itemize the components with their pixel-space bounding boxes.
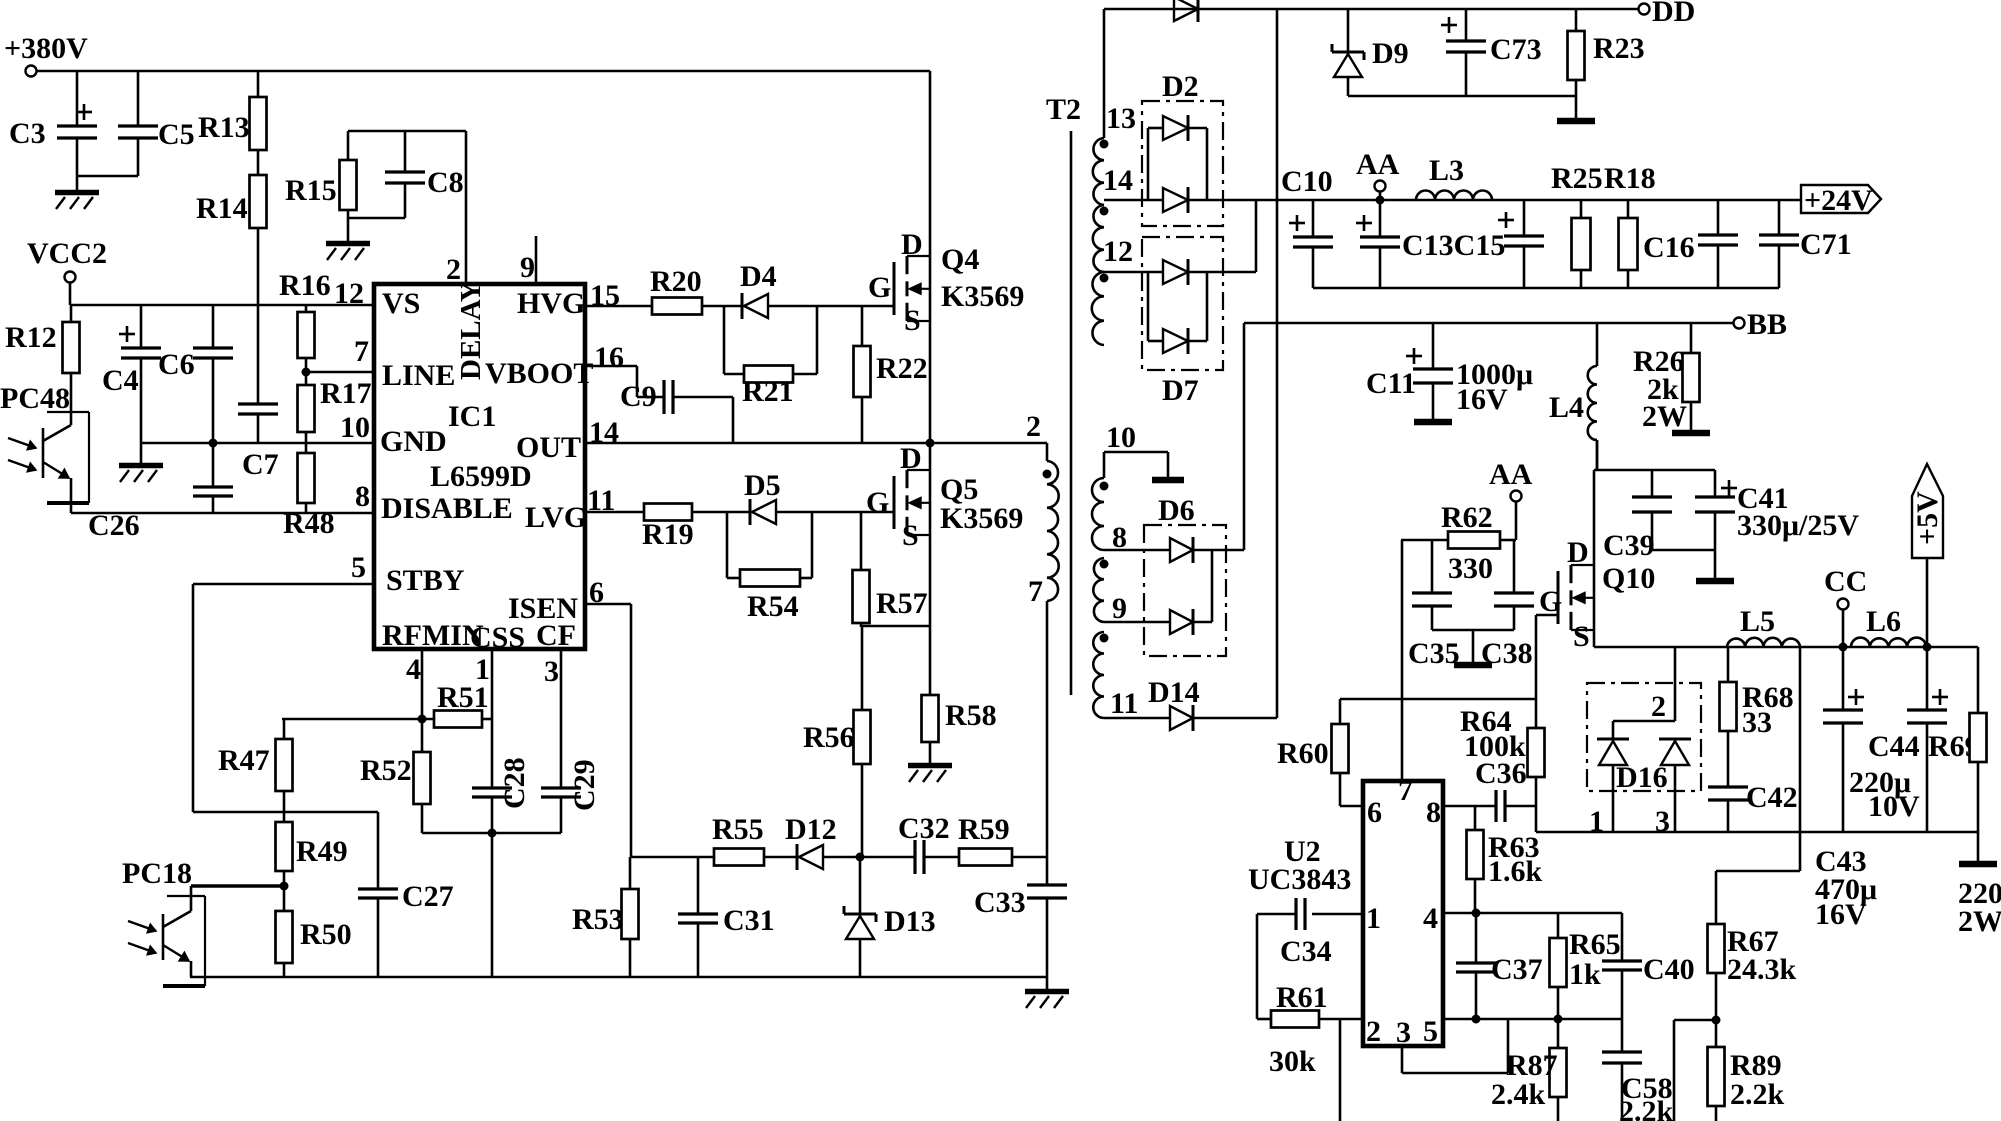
svg-text:C16: C16 — [1643, 231, 1695, 264]
svg-text:LINE: LINE — [382, 359, 455, 392]
capacitor C8 — [348, 131, 464, 218]
svg-text:C37: C37 — [1491, 953, 1543, 986]
svg-text:VS: VS — [382, 287, 420, 320]
svg-text:R50: R50 — [300, 918, 352, 951]
svg-text:T2: T2 — [1046, 93, 1081, 126]
diode D16 dual — [1587, 647, 1701, 838]
capacitor C11 — [1366, 323, 1533, 419]
resistor R12 — [5, 305, 80, 373]
wire C39 C41 top — [1594, 469, 1715, 472]
resistor R48 — [283, 443, 335, 540]
wire pin3 net — [1402, 1019, 1508, 1073]
capacitor C16 — [1643, 200, 1738, 288]
svg-text:R17: R17 — [320, 377, 372, 410]
wire +380V rail — [36, 70, 930, 73]
svg-text:5: 5 — [351, 551, 366, 584]
wire filter bottom bus — [1313, 287, 1779, 290]
resistor R17 — [298, 372, 372, 443]
wire LINE pin7 — [302, 368, 375, 377]
svg-text:R13: R13 — [198, 111, 250, 144]
capacitor C3 — [9, 71, 97, 176]
svg-text:3: 3 — [544, 655, 559, 688]
wire pin10 stub — [1104, 452, 1184, 480]
op-amp U2 UC3843 box — [1363, 781, 1443, 1046]
svg-text:VBOOT: VBOOT — [485, 357, 593, 390]
wire pin9 into D6 — [1104, 621, 1170, 624]
svg-text:10: 10 — [340, 411, 370, 444]
resistor R69 — [1958, 647, 2001, 938]
svg-text:C39: C39 — [1603, 529, 1655, 562]
transformer T2 secondary lower — [1092, 421, 1138, 720]
wire DISABLE pin8 — [71, 512, 374, 515]
resistor R26 — [1633, 323, 1700, 433]
diode D9 zener — [1332, 9, 1409, 96]
wire C39 C41 bottom — [1652, 550, 1715, 578]
svg-text:L6599D: L6599D — [430, 460, 532, 493]
wire Q10 gate chain — [1535, 615, 1538, 728]
diode D5 — [744, 469, 894, 525]
resistor R67 — [1708, 924, 1797, 1025]
wire VCC2 rail — [70, 283, 374, 305]
optocoupler PC48 — [0, 373, 89, 513]
svg-text:C29: C29 — [568, 759, 601, 811]
capacitor C36 — [1443, 757, 1536, 822]
inductor L3 — [1416, 154, 1492, 200]
svg-text:7: 7 — [354, 335, 369, 368]
resistor R89 — [1708, 1020, 1785, 1121]
ground under C3 — [55, 193, 99, 210]
svg-text:D6: D6 — [1158, 494, 1195, 527]
resistor R18 — [1604, 162, 1656, 288]
svg-text:UC3843: UC3843 — [1248, 863, 1351, 896]
resistor R58 — [922, 626, 997, 763]
svg-text:16: 16 — [594, 341, 624, 374]
wire DD rail — [1104, 8, 1638, 11]
resistor R68 — [1720, 647, 1794, 787]
wire pin2 down — [1339, 1019, 1342, 1121]
svg-text:5: 5 — [1423, 1015, 1438, 1048]
svg-text:R52: R52 — [360, 754, 412, 787]
transistor Q4 K3569 — [868, 71, 1024, 443]
resistor R19 — [585, 504, 750, 552]
node +24V output flag — [1801, 184, 1881, 217]
svg-text:R62: R62 — [1441, 501, 1493, 534]
IC1 pin numbers — [334, 251, 624, 688]
svg-text:3: 3 — [1396, 1016, 1411, 1049]
wire Q10 gate — [1536, 614, 1558, 617]
svg-text:D: D — [900, 442, 922, 475]
wire GND pin10 — [141, 439, 374, 448]
svg-text:AA: AA — [1356, 148, 1400, 181]
capacitor C34 — [1257, 898, 1363, 1019]
capacitor C58 — [1602, 1019, 1674, 1121]
wire pin5 net — [1443, 1015, 1622, 1024]
capacitor C37 — [1456, 913, 1543, 1019]
IC1 pin names — [380, 281, 593, 654]
wire C35 C38 bottom — [1432, 630, 1514, 662]
svg-text:R56: R56 — [803, 721, 855, 754]
svg-text:16V: 16V — [1815, 898, 1867, 931]
svg-text:C6: C6 — [158, 348, 195, 381]
svg-text:1k: 1k — [1569, 958, 1601, 991]
capacitor C31 — [678, 857, 775, 977]
capacitor C39 — [1603, 470, 1672, 562]
ground under R15 — [326, 244, 370, 261]
ground under C11 — [1414, 419, 1452, 426]
wire STBY pin5 — [193, 584, 378, 812]
svg-text:Q10: Q10 — [1602, 562, 1655, 595]
svg-text:6: 6 — [1367, 796, 1382, 829]
resistor R56 — [803, 626, 871, 857]
wire pin7 net — [1401, 540, 1404, 781]
transformer T2 primary winding — [1026, 410, 1059, 608]
wire C3-C5 join — [77, 176, 138, 190]
optocoupler PC18 — [122, 857, 284, 986]
svg-text:IC1: IC1 — [448, 400, 496, 433]
svg-text:Q4: Q4 — [941, 243, 979, 276]
svg-text:AA: AA — [1489, 458, 1533, 491]
svg-text:C13C15: C13C15 — [1402, 229, 1505, 262]
diode D6 dual — [1144, 494, 1244, 656]
transistor Q5 K3569 — [866, 442, 1023, 626]
diode D13 zener — [844, 857, 936, 977]
svg-text:CC: CC — [1824, 565, 1867, 598]
svg-text:C35: C35 — [1408, 637, 1460, 670]
svg-text:4: 4 — [1423, 902, 1438, 935]
diode D14 — [1104, 676, 1277, 731]
transistor Q10 — [1539, 470, 1655, 653]
capacitor C28 — [472, 757, 531, 833]
svg-text:R48: R48 — [283, 507, 335, 540]
resistor R22 — [854, 306, 928, 443]
node +380V terminal — [4, 32, 88, 77]
svg-text:330μ/25V: 330μ/25V — [1737, 509, 1859, 542]
ground under C35 C38 — [1454, 662, 1492, 669]
svg-text:+24V: +24V — [1804, 184, 1873, 217]
resistor R61 — [1257, 981, 1363, 1078]
svg-text:CSS: CSS — [470, 621, 525, 654]
node AA on rail — [1356, 148, 1400, 205]
svg-text:R18: R18 — [1604, 162, 1656, 195]
capacitor C33 — [974, 885, 1067, 977]
inductor L5 — [1727, 605, 1800, 647]
resistor R52 — [360, 719, 431, 833]
svg-text:R15: R15 — [285, 174, 337, 207]
capacitor C42 — [1708, 781, 1798, 832]
svg-text:C36: C36 — [1475, 757, 1527, 790]
svg-text:2: 2 — [1026, 410, 1041, 443]
svg-text:30k: 30k — [1269, 1045, 1316, 1078]
node BB terminal — [1734, 308, 1788, 341]
svg-text:D: D — [1567, 536, 1589, 569]
svg-text:8: 8 — [1426, 796, 1441, 829]
svg-text:+5V: +5V — [1911, 491, 1944, 545]
svg-text:R54: R54 — [747, 590, 799, 623]
inductor L4 — [1549, 323, 1597, 470]
svg-text:L5: L5 — [1740, 605, 1775, 638]
svg-text:7: 7 — [1028, 575, 1043, 608]
inductor L6 — [1851, 605, 1926, 647]
ground under R26 — [1672, 430, 1710, 437]
svg-text:C9: C9 — [620, 380, 657, 413]
svg-text:2W: 2W — [1958, 905, 2001, 938]
capacitor C10 — [1281, 165, 1333, 288]
wire L4 to Q10 drain — [1596, 440, 1599, 470]
svg-text:8: 8 — [355, 480, 370, 513]
wire pin12 through D7 to rail — [1104, 200, 1256, 272]
capacitor C4 — [102, 305, 161, 463]
svg-text:C4: C4 — [102, 364, 139, 397]
wire OUT pin14 — [585, 439, 1047, 462]
wire pin4 node — [282, 649, 434, 724]
resistor R53 — [572, 857, 639, 977]
capacitor C35 — [1408, 540, 1460, 670]
svg-text:+380V: +380V — [4, 32, 88, 65]
svg-text:4: 4 — [406, 653, 421, 686]
svg-text:C34: C34 — [1280, 935, 1332, 968]
svg-text:STBY: STBY — [386, 564, 465, 597]
svg-text:G: G — [1539, 585, 1562, 618]
capacitor C29 — [541, 759, 601, 833]
resistor R54 — [727, 512, 812, 623]
svg-text:C5: C5 — [158, 118, 195, 151]
svg-text:R51: R51 — [437, 681, 489, 714]
svg-text:C32: C32 — [898, 812, 950, 845]
resistor R57 — [853, 512, 928, 627]
svg-text:D2: D2 — [1162, 70, 1199, 103]
capacitor C32 — [860, 812, 959, 874]
transformer T2 core — [1070, 131, 1073, 695]
svg-text:L4: L4 — [1549, 391, 1584, 424]
svg-text:S: S — [904, 304, 921, 337]
svg-text:S: S — [1573, 620, 1590, 653]
svg-text:R14: R14 — [196, 192, 248, 225]
capacitor C40 — [1602, 913, 1695, 1019]
svg-text:RFMIN: RFMIN — [382, 619, 484, 652]
node D13 junction — [856, 853, 865, 862]
ground under C41 — [1696, 578, 1734, 585]
svg-text:BB: BB — [1747, 308, 1787, 341]
resistor R64 — [1460, 705, 1545, 832]
svg-text:10: 10 — [1106, 421, 1136, 454]
svg-text:R12: R12 — [5, 321, 57, 354]
svg-text:2: 2 — [1651, 690, 1666, 723]
svg-text:C26: C26 — [88, 509, 140, 542]
svg-text:VCC2: VCC2 — [27, 237, 107, 270]
svg-text:LVG: LVG — [525, 501, 587, 534]
node L6 right junction — [1923, 643, 1932, 652]
svg-text:G: G — [868, 271, 891, 304]
svg-text:C10: C10 — [1281, 165, 1333, 198]
wire BB rail — [1244, 322, 1733, 325]
diode D2 dual — [1142, 70, 1223, 226]
svg-text:DD: DD — [1652, 0, 1695, 28]
svg-text:D14: D14 — [1148, 676, 1200, 709]
wire R67 feedback tap — [1716, 647, 1800, 924]
svg-text:C7: C7 — [242, 448, 279, 481]
svg-text:R65: R65 — [1569, 928, 1621, 961]
svg-text:1.6k: 1.6k — [1488, 855, 1543, 888]
wire pin9 stub — [535, 236, 538, 284]
svg-text:330: 330 — [1448, 552, 1493, 585]
svg-text:R47: R47 — [218, 744, 270, 777]
svg-text:D12: D12 — [785, 813, 837, 846]
resistor R55 — [631, 813, 797, 866]
diode D12 — [785, 813, 860, 870]
svg-text:R49: R49 — [296, 835, 348, 868]
resistor R51 — [434, 681, 492, 728]
svg-text:R60: R60 — [1277, 737, 1329, 770]
wire D6 output to BB — [1243, 323, 1246, 550]
svg-text:GND: GND — [380, 425, 447, 458]
resistor R65 — [1550, 913, 1621, 1019]
svg-text:R23: R23 — [1593, 32, 1645, 65]
node DD terminal — [1639, 0, 1696, 28]
svg-text:R22: R22 — [876, 352, 928, 385]
wire primary return — [1046, 601, 1049, 885]
resistor R60 — [1277, 699, 1363, 806]
svg-text:2: 2 — [446, 253, 461, 286]
resistor R14 — [196, 150, 267, 404]
svg-text:10V: 10V — [1868, 790, 1920, 823]
svg-text:C11: C11 — [1366, 367, 1416, 400]
svg-text:14: 14 — [1103, 164, 1133, 197]
capacitor C5 — [118, 71, 195, 176]
svg-text:2W: 2W — [1642, 400, 1687, 433]
svg-text:R59: R59 — [958, 813, 1010, 846]
svg-text:R19: R19 — [642, 518, 694, 551]
wire +5V bus from Q10 source — [1594, 646, 1978, 649]
diode D4 — [740, 260, 894, 319]
capacitor C15 — [1402, 200, 1544, 288]
capacitor C6 — [158, 305, 233, 443]
op-amp IC1 L6599D box — [374, 284, 585, 649]
svg-text:12: 12 — [1103, 235, 1133, 268]
svg-text:R61: R61 — [1276, 981, 1328, 1014]
svg-text:D9: D9 — [1372, 37, 1409, 70]
capacitor C38 — [1481, 540, 1534, 670]
svg-text:K3569: K3569 — [941, 280, 1024, 313]
resistor R59 — [958, 813, 1047, 866]
wire feedback node down — [1674, 1020, 1716, 1121]
U2 pin numbers — [1366, 774, 1441, 1049]
svg-text:11: 11 — [1110, 687, 1138, 720]
wire Q5 source to R56 — [861, 625, 930, 628]
resistor R62 — [1401, 501, 1516, 585]
svg-text:PC48: PC48 — [0, 382, 70, 415]
capacitor C9 — [585, 366, 733, 443]
node AA terminal right — [1489, 458, 1533, 540]
svg-text:DELAY: DELAY — [455, 281, 487, 380]
svg-text:K3569: K3569 — [940, 502, 1023, 535]
svg-text:L6: L6 — [1866, 605, 1901, 638]
wire pin8 into D6 — [1104, 549, 1170, 552]
capacitor C7 — [238, 404, 279, 481]
svg-text:R55: R55 — [712, 813, 764, 846]
svg-text:R21: R21 — [742, 375, 794, 408]
wire pin1 CSS — [491, 649, 494, 788]
svg-text:C42: C42 — [1746, 781, 1798, 814]
svg-text:R53: R53 — [572, 903, 624, 936]
svg-text:D5: D5 — [744, 469, 781, 502]
ground main bus — [1025, 977, 1069, 1008]
capacitor C41 — [1695, 470, 1859, 550]
svg-text:16V: 16V — [1456, 383, 1508, 416]
ground under R69 — [1959, 861, 1997, 868]
svg-text:C73: C73 — [1490, 33, 1542, 66]
ground under R23 — [1557, 118, 1595, 125]
svg-text:9: 9 — [1112, 592, 1127, 625]
svg-text:G: G — [866, 486, 889, 519]
node VCC2 terminal — [27, 237, 107, 283]
node +5V flag — [1911, 464, 1944, 647]
wire ISEN pin6 — [585, 604, 631, 857]
resistor R15 — [285, 131, 357, 241]
svg-text:DISABLE: DISABLE — [381, 492, 513, 525]
wire R60 gate rail — [1340, 698, 1536, 701]
svg-text:CF: CF — [536, 619, 576, 652]
resistor R21 — [724, 306, 817, 408]
resistor R47 — [218, 719, 293, 812]
svg-text:2.2k: 2.2k — [1730, 1078, 1785, 1111]
wire D9 C73 R23 bottom — [1348, 95, 1576, 98]
wire secondary ground bus — [1536, 831, 1978, 834]
transformer T2 secondary upper — [1092, 102, 1136, 345]
svg-text:2.2k: 2.2k — [1619, 1095, 1674, 1121]
resistor R13 — [198, 71, 267, 150]
svg-text:R16: R16 — [279, 269, 331, 302]
svg-text:7: 7 — [1398, 774, 1413, 807]
resistor R87 — [1491, 1019, 1567, 1121]
wire D14 to DD rail — [1276, 9, 1279, 718]
svg-text:HVG: HVG — [517, 287, 585, 320]
capacitor C73 — [1441, 9, 1542, 96]
ground under C4 — [119, 466, 163, 483]
wire R15-C8 top to pin2 — [348, 131, 466, 284]
svg-text:C27: C27 — [402, 880, 454, 913]
capacitor C13 — [1356, 200, 1400, 288]
svg-text:13: 13 — [1106, 102, 1136, 135]
svg-text:C31: C31 — [723, 904, 775, 937]
transformer T2 label — [1046, 93, 1081, 126]
resistor R63 — [1467, 806, 1543, 913]
resistor R23 — [1568, 9, 1645, 118]
resistor R49 — [276, 812, 348, 886]
resistor R20 — [585, 265, 742, 315]
svg-text:R57: R57 — [876, 587, 928, 620]
svg-text:24.3k: 24.3k — [1727, 953, 1797, 986]
svg-text:R25: R25 — [1551, 162, 1603, 195]
svg-text:D: D — [901, 228, 923, 261]
svg-text:C44: C44 — [1868, 730, 1920, 763]
U2 labels — [1248, 835, 1351, 896]
wire pin4 net — [1443, 909, 1622, 918]
resistor R50 — [276, 882, 352, 978]
svg-text:C3: C3 — [9, 117, 46, 150]
svg-text:S: S — [902, 519, 919, 552]
capacitor C71 — [1759, 200, 1852, 288]
svg-text:D13: D13 — [884, 905, 936, 938]
svg-text:33: 33 — [1742, 706, 1772, 739]
capacitor C43 — [1815, 647, 1877, 931]
wire +24V rectified rail — [1104, 199, 1801, 202]
ground under R58 — [908, 766, 952, 783]
svg-text:C8: C8 — [427, 166, 464, 199]
diode D7 dual — [1142, 237, 1223, 407]
svg-text:C28: C28 — [498, 757, 531, 809]
svg-text:D7: D7 — [1162, 374, 1199, 407]
svg-text:1: 1 — [1366, 902, 1381, 935]
